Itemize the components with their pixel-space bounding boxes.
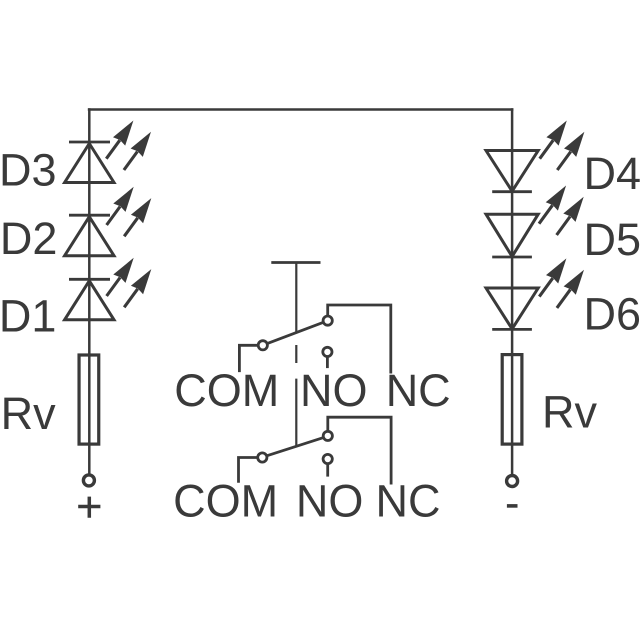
- pole2 NC lead wire: [328, 417, 391, 484]
- LED D4 arrows: [540, 121, 585, 171]
- pole1 NO contact circle: [323, 347, 332, 356]
- minus sign: [507, 504, 518, 508]
- linkage dash 2: [295, 379, 297, 446]
- resistor Rv right body: [502, 355, 522, 445]
- LED D5 arrows: [539, 186, 584, 236]
- wire top horizontal: [88, 108, 514, 111]
- LED D3 triangle: [65, 144, 114, 183]
- plus sign: [78, 497, 100, 518]
- svg-text:NO: NO: [296, 476, 364, 527]
- svg-text:NC: NC: [386, 365, 451, 416]
- wire left vertical bus: [88, 108, 91, 473]
- svg-text:COM: COM: [173, 476, 278, 527]
- LED D6 arrows: [539, 258, 584, 308]
- svg-text:D3: D3: [0, 145, 57, 196]
- pole1 COM contact circle: [258, 341, 267, 350]
- pole1 moving contact blade: [267, 322, 323, 343]
- terminal circle -: [507, 476, 518, 487]
- switch actuator stem: [295, 263, 297, 334]
- terminal circle +: [83, 475, 94, 486]
- svg-text:NO: NO: [300, 365, 368, 416]
- LED D4 triangle: [486, 151, 538, 192]
- svg-text:D2: D2: [0, 213, 57, 264]
- switch actuator bar: [271, 261, 320, 264]
- LED D1 arrows: [107, 258, 152, 308]
- svg-text:D5: D5: [584, 214, 640, 265]
- LED D3 arrows: [106, 121, 151, 171]
- LED D1 cathode bar: [69, 278, 110, 281]
- pole1 NC lead wire: [328, 305, 391, 374]
- LED D2 arrows: [107, 187, 152, 237]
- LED D2 triangle: [65, 217, 114, 256]
- LED D6 triangle: [486, 288, 538, 329]
- pole2 moving contact blade: [267, 438, 324, 456]
- svg-text:D6: D6: [584, 288, 640, 339]
- LED D5 triangle: [486, 214, 538, 256]
- pole2 NO contact circle: [323, 454, 332, 463]
- LED D2 cathode bar: [69, 214, 110, 217]
- LED D4 cathode bar: [492, 190, 532, 193]
- pole1 NC contact circle: [323, 316, 332, 325]
- svg-text:Rv: Rv: [542, 386, 597, 437]
- svg-text:D4: D4: [584, 148, 640, 199]
- LED D5 cathode bar: [492, 256, 532, 259]
- wire right vertical bus: [511, 108, 514, 474]
- pole1 COM lead wire: [239, 345, 258, 372]
- svg-text:NC: NC: [376, 476, 441, 527]
- LED D6 cathode bar: [492, 328, 532, 331]
- pole1 NO lead stub: [326, 357, 329, 369]
- resistor Rv left body: [79, 355, 99, 444]
- pole2 COM contact circle: [258, 453, 267, 462]
- svg-text:Rv: Rv: [1, 388, 56, 439]
- pole2 COM lead wire: [239, 458, 258, 483]
- LED D1 triangle: [65, 281, 114, 320]
- pole2 NC contact circle: [323, 431, 332, 440]
- svg-text:D1: D1: [0, 291, 56, 342]
- LED D3 cathode bar: [69, 141, 110, 144]
- svg-text:COM: COM: [174, 365, 279, 416]
- linkage dash 1: [295, 345, 297, 363]
- pole2 NO lead stub: [326, 464, 329, 477]
